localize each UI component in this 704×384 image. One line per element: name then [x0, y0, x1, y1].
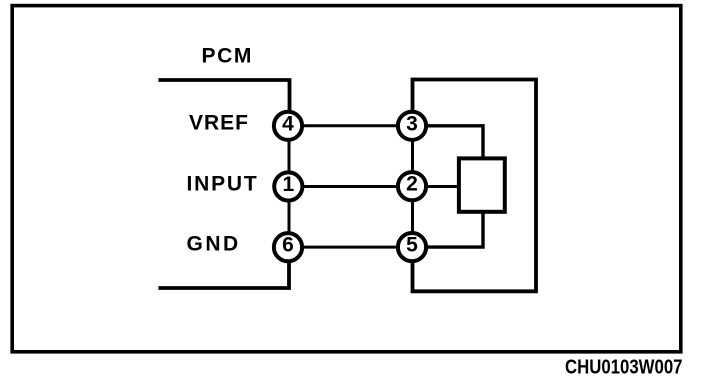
pin 5 circle — [398, 233, 426, 261]
sensor element box — [459, 158, 505, 211]
sensor housing outline — [413, 80, 537, 292]
wire INPUT: pin 1 to pin 2 — [288, 185, 412, 188]
pin 1 circle — [274, 172, 302, 200]
wire VREF: pin 4 to pin 3 — [288, 124, 412, 127]
wire GND: pin 6 to pin 5 — [288, 246, 412, 249]
pin 6 circle — [274, 233, 302, 261]
wire pin 3 to sensor element top — [412, 126, 483, 158]
svg-text:GND: GND — [187, 233, 241, 256]
pin 2 circle — [398, 172, 426, 200]
wire PCM connector outline (top segment) — [159, 80, 290, 126]
wire PCM connector outline (bottom segment) — [159, 247, 290, 288]
svg-text:1: 1 — [282, 173, 294, 196]
svg-text:4: 4 — [282, 112, 294, 135]
pin 4 circle — [274, 112, 302, 140]
svg-text:INPUT: INPUT — [187, 173, 259, 196]
svg-text:VREF: VREF — [189, 111, 249, 134]
wire pin 2 to sensor element left — [412, 185, 460, 188]
svg-text:3: 3 — [406, 112, 418, 135]
pin 3 circle — [398, 112, 426, 140]
svg-text:PCM: PCM — [202, 45, 253, 68]
sensor housing left edge through pins — [411, 126, 414, 247]
wire pin 5 to sensor element bottom — [412, 212, 483, 247]
svg-text:CHU0103W007: CHU0103W007 — [565, 356, 683, 379]
wire PCM pins bus 4-1-6 vertical — [288, 126, 291, 247]
svg-text:2: 2 — [406, 173, 418, 196]
svg-text:6: 6 — [282, 233, 294, 256]
svg-text:5: 5 — [406, 233, 418, 256]
